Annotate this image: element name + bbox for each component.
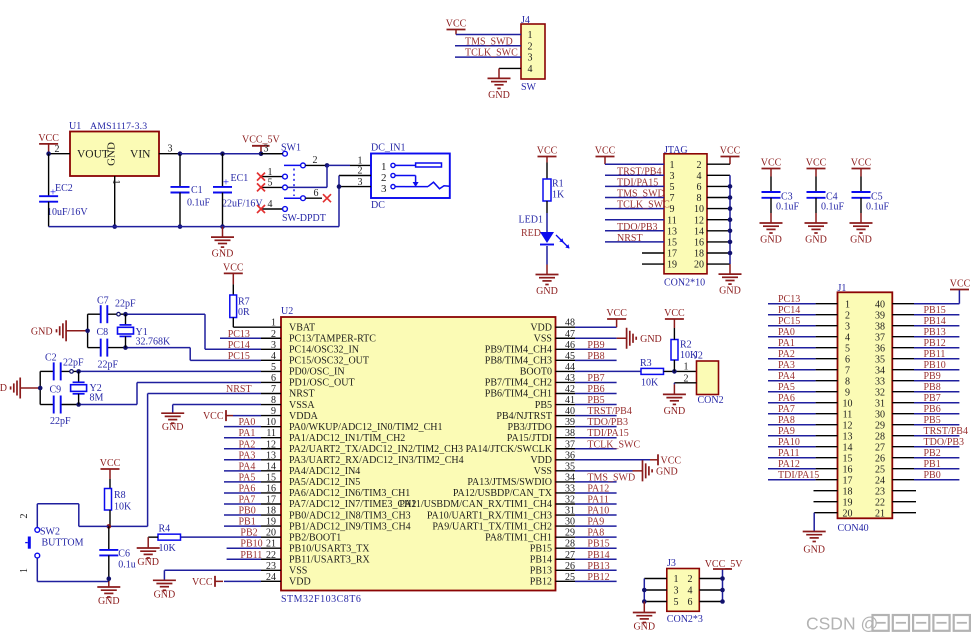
- svg-text:PB0/ADC12_IN8/TIM3_CH3: PB0/ADC12_IN8/TIM3_CH3: [289, 510, 411, 521]
- svg-text:1: 1: [670, 160, 675, 171]
- svg-text:DC: DC: [371, 200, 385, 211]
- svg-text:DC_IN1: DC_IN1: [371, 143, 405, 154]
- svg-text:PB14: PB14: [924, 316, 946, 327]
- svg-text:0.1uF: 0.1uF: [866, 202, 890, 213]
- svg-text:PA5: PA5: [239, 472, 256, 483]
- svg-text:+: +: [223, 177, 229, 189]
- svg-text:GND: GND: [162, 422, 184, 433]
- svg-text:PB6: PB6: [587, 384, 604, 395]
- svg-text:PA10: PA10: [587, 506, 609, 517]
- svg-text:VCC: VCC: [537, 146, 558, 157]
- svg-text:VOUT: VOUT: [77, 149, 109, 161]
- svg-text:C2: C2: [45, 353, 57, 364]
- svg-text:GND: GND: [656, 466, 678, 477]
- svg-text:TMS_SWD: TMS_SWD: [587, 472, 635, 483]
- svg-text:18: 18: [694, 249, 704, 260]
- svg-text:VDD: VDD: [530, 322, 552, 333]
- svg-text:GND: GND: [760, 235, 782, 246]
- svg-text:PB15: PB15: [924, 305, 946, 316]
- svg-text:3: 3: [674, 586, 679, 597]
- svg-text:PB10/USART3_TX: PB10/USART3_TX: [289, 543, 370, 554]
- svg-text:34: 34: [875, 366, 885, 377]
- svg-text:SW: SW: [521, 82, 537, 93]
- svg-text:32: 32: [875, 388, 885, 399]
- svg-text:12: 12: [843, 421, 853, 432]
- svg-text:16: 16: [843, 465, 853, 476]
- svg-text:VCC: VCC: [806, 158, 827, 169]
- svg-text:RED: RED: [521, 228, 541, 239]
- svg-text:21: 21: [875, 509, 885, 520]
- svg-text:GND: GND: [633, 622, 655, 633]
- svg-text:PA1/ADC12_IN1/TIM_CH2: PA1/ADC12_IN1/TIM_CH2: [289, 433, 405, 444]
- svg-text:VCC: VCC: [595, 146, 616, 157]
- svg-text:PA12: PA12: [778, 459, 800, 470]
- svg-text:PA8: PA8: [587, 528, 604, 539]
- svg-text:PA10/UART1_RX/TIM1_CH3: PA10/UART1_RX/TIM1_CH3: [427, 510, 552, 521]
- svg-text:BUTTOM: BUTTOM: [42, 538, 84, 549]
- svg-text:TDO/PB3: TDO/PB3: [924, 437, 965, 448]
- svg-text:0.1uF: 0.1uF: [821, 202, 845, 213]
- svg-text:2: 2: [697, 160, 702, 171]
- svg-text:15: 15: [843, 454, 853, 465]
- svg-text:C1: C1: [191, 185, 203, 196]
- svg-text:PB12: PB12: [924, 338, 946, 349]
- svg-text:PB13: PB13: [530, 566, 552, 577]
- svg-text:PB15: PB15: [587, 539, 609, 550]
- svg-text:GND: GND: [31, 326, 53, 337]
- svg-text:PA3: PA3: [239, 450, 256, 461]
- svg-text:R3: R3: [640, 358, 652, 369]
- svg-text:R7: R7: [238, 297, 250, 308]
- svg-text:14: 14: [843, 443, 853, 454]
- svg-text:33: 33: [875, 377, 885, 388]
- svg-text:PB12: PB12: [530, 577, 552, 588]
- svg-text:VSS: VSS: [534, 333, 552, 344]
- svg-text:PA13/JTMS/SWDIO: PA13/JTMS/SWDIO: [467, 477, 552, 488]
- svg-text:27: 27: [875, 443, 885, 454]
- svg-text:VBAT: VBAT: [289, 322, 315, 333]
- svg-text:22pF: 22pF: [63, 358, 84, 369]
- svg-text:PA0: PA0: [239, 417, 256, 428]
- svg-text:NRST: NRST: [289, 389, 315, 400]
- svg-text:VCC: VCC: [38, 133, 59, 144]
- svg-text:17: 17: [667, 249, 677, 260]
- svg-text:PB14: PB14: [530, 554, 552, 565]
- svg-text:PB7: PB7: [587, 373, 604, 384]
- svg-text:30: 30: [875, 410, 885, 421]
- svg-text:8: 8: [845, 377, 850, 388]
- svg-text:3: 3: [381, 183, 387, 195]
- svg-text:SW-DPDT: SW-DPDT: [282, 213, 326, 224]
- svg-text:3: 3: [168, 144, 173, 155]
- svg-text:PA3: PA3: [778, 360, 795, 371]
- svg-text:PC15/OSC32_OUT: PC15/OSC32_OUT: [289, 356, 369, 367]
- svg-text:36: 36: [875, 344, 885, 355]
- svg-text:10K: 10K: [114, 502, 132, 513]
- svg-text:PA6: PA6: [239, 483, 256, 494]
- svg-text:4: 4: [697, 171, 702, 182]
- svg-text:GND: GND: [664, 406, 686, 417]
- svg-text:NRST: NRST: [617, 233, 643, 244]
- svg-text:PA9/UART1_TX/TIM1_CH2: PA9/UART1_TX/TIM1_CH2: [432, 521, 552, 532]
- svg-text:TCLK_SWC: TCLK_SWC: [617, 200, 670, 211]
- svg-text:6: 6: [314, 188, 319, 199]
- svg-text:GND: GND: [98, 596, 120, 607]
- svg-text:PB9: PB9: [924, 371, 941, 382]
- svg-text:PB13: PB13: [587, 561, 609, 572]
- svg-text:VCC: VCC: [203, 411, 224, 422]
- svg-text:VCC: VCC: [223, 262, 244, 273]
- svg-text:2: 2: [19, 514, 30, 519]
- svg-text:PB6: PB6: [924, 404, 941, 415]
- svg-text:PC15: PC15: [778, 316, 800, 327]
- svg-text:38: 38: [875, 322, 885, 333]
- svg-text:VCC: VCC: [661, 455, 682, 466]
- svg-text:2: 2: [688, 574, 693, 585]
- svg-text:TDI/PA15: TDI/PA15: [778, 470, 819, 481]
- svg-text:R1: R1: [552, 179, 564, 190]
- svg-text:PB13: PB13: [924, 327, 946, 338]
- svg-text:3: 3: [528, 53, 533, 64]
- svg-text:PA10: PA10: [778, 437, 800, 448]
- svg-text:22pF: 22pF: [98, 360, 119, 371]
- svg-text:PA2/UART2_TX/ADC12_IN2/TIM2_CH: PA2/UART2_TX/ADC12_IN2/TIM2_CH3: [289, 444, 463, 455]
- svg-text:C9: C9: [50, 385, 62, 396]
- svg-text:PC13: PC13: [778, 294, 800, 305]
- svg-text:12: 12: [694, 215, 704, 226]
- svg-text:11: 11: [843, 410, 853, 421]
- svg-text:GND: GND: [0, 383, 7, 394]
- svg-text:TRST/PB4: TRST/PB4: [924, 426, 968, 437]
- svg-text:1K: 1K: [552, 190, 565, 201]
- svg-text:PA9: PA9: [778, 426, 795, 437]
- svg-text:CON2*3: CON2*3: [667, 614, 703, 625]
- svg-text:PA0/WKUP/ADC12_IN0/TIM2_CH1: PA0/WKUP/ADC12_IN0/TIM2_CH1: [289, 422, 443, 433]
- svg-text:VDDA: VDDA: [289, 411, 319, 422]
- svg-text:22pF: 22pF: [50, 416, 71, 427]
- svg-text:PA7: PA7: [239, 495, 256, 506]
- svg-text:PA8/TIM1_CH1: PA8/TIM1_CH1: [485, 532, 552, 543]
- svg-text:29: 29: [875, 421, 885, 432]
- svg-text:PB0: PB0: [924, 470, 941, 481]
- svg-text:PB5: PB5: [924, 415, 941, 426]
- svg-text:1: 1: [19, 568, 30, 573]
- svg-text:PC13/TAMPER-RTC: PC13/TAMPER-RTC: [289, 333, 376, 344]
- svg-text:CON2: CON2: [698, 395, 724, 406]
- svg-text:TCLK_SWC: TCLK_SWC: [465, 48, 518, 59]
- svg-text:R2: R2: [680, 340, 692, 351]
- svg-text:PB9/TIM4_CH4: PB9/TIM4_CH4: [485, 345, 552, 356]
- svg-text:PB2/BOOT1: PB2/BOOT1: [289, 532, 341, 543]
- svg-text:PB12: PB12: [587, 572, 609, 583]
- svg-text:CON40: CON40: [838, 523, 869, 534]
- svg-text:PA2: PA2: [239, 439, 256, 450]
- svg-text:PB10: PB10: [240, 539, 262, 550]
- svg-text:TDI/PA15: TDI/PA15: [587, 428, 628, 439]
- svg-text:PB5: PB5: [535, 400, 552, 411]
- svg-text:PA5: PA5: [778, 382, 795, 393]
- svg-text:PB1: PB1: [924, 459, 941, 470]
- svg-text:PA12/USBDP/CAN_TX: PA12/USBDP/CAN_TX: [453, 488, 553, 499]
- svg-text:SW2: SW2: [40, 527, 60, 538]
- svg-text:PB4/NJTRST: PB4/NJTRST: [496, 411, 552, 422]
- svg-text:PA11/USBDM/CAN_RX/TIM1_CH4: PA11/USBDM/CAN_RX/TIM1_CH4: [399, 499, 552, 510]
- svg-text:0.1u: 0.1u: [118, 560, 136, 571]
- svg-text:10: 10: [843, 399, 853, 410]
- svg-text:18: 18: [843, 487, 853, 498]
- svg-text:R8: R8: [114, 490, 126, 501]
- svg-text:PB1/ADC12_IN9/TIM3_CH4: PB1/ADC12_IN9/TIM3_CH4: [289, 521, 411, 532]
- svg-text:GND: GND: [850, 235, 872, 246]
- svg-text:0R: 0R: [238, 307, 250, 318]
- svg-text:R4: R4: [159, 524, 171, 535]
- svg-text:GND: GND: [536, 286, 558, 297]
- svg-text:VCC: VCC: [446, 19, 467, 30]
- svg-text:PA1: PA1: [778, 338, 795, 349]
- svg-text:PC13: PC13: [228, 329, 250, 340]
- svg-text:4: 4: [845, 333, 850, 344]
- svg-text:6: 6: [688, 597, 693, 608]
- svg-text:14: 14: [694, 226, 704, 237]
- svg-text:C6: C6: [118, 549, 130, 560]
- svg-text:2: 2: [845, 311, 850, 322]
- svg-text:PB8: PB8: [587, 351, 604, 362]
- svg-text:10: 10: [694, 204, 704, 215]
- svg-text:35: 35: [875, 355, 885, 366]
- svg-text:PA11: PA11: [587, 495, 609, 506]
- svg-text:PB1: PB1: [239, 517, 256, 528]
- svg-text:GND: GND: [719, 286, 741, 297]
- svg-text:4: 4: [688, 586, 693, 597]
- svg-text:22: 22: [875, 498, 885, 509]
- svg-text:PA12: PA12: [587, 483, 609, 494]
- svg-text:GND: GND: [805, 235, 827, 246]
- svg-text:J3: J3: [667, 558, 676, 569]
- svg-text:PB11: PB11: [240, 550, 262, 561]
- svg-text:31: 31: [875, 399, 885, 410]
- svg-text:EC2: EC2: [55, 183, 73, 194]
- svg-text:VCC: VCC: [606, 308, 627, 319]
- svg-text:VCC: VCC: [664, 308, 685, 319]
- svg-text:PB7: PB7: [924, 393, 941, 404]
- svg-text:GND: GND: [137, 557, 159, 568]
- svg-text:PA4: PA4: [239, 461, 256, 472]
- svg-text:1: 1: [674, 574, 679, 585]
- svg-text:26: 26: [875, 454, 885, 465]
- svg-text:7: 7: [845, 366, 850, 377]
- svg-text:TCLK_SWC: TCLK_SWC: [587, 439, 640, 450]
- svg-text:24: 24: [875, 476, 885, 487]
- svg-text:PB5: PB5: [587, 395, 604, 406]
- svg-text:10K: 10K: [641, 378, 659, 389]
- svg-text:8M: 8M: [90, 393, 104, 404]
- svg-text:PB2: PB2: [240, 527, 257, 538]
- svg-text:VSS: VSS: [534, 466, 552, 477]
- svg-text:PA1: PA1: [239, 428, 256, 439]
- svg-text:17: 17: [843, 476, 853, 487]
- svg-text:VCC: VCC: [851, 158, 872, 169]
- svg-text:PC15: PC15: [228, 351, 250, 362]
- svg-text:PC14: PC14: [778, 305, 800, 316]
- svg-text:TMS_SWD: TMS_SWD: [465, 36, 513, 47]
- svg-text:PB2: PB2: [924, 448, 941, 459]
- svg-text:EC1: EC1: [231, 173, 249, 184]
- svg-text:PB7/TIM4_CH2: PB7/TIM4_CH2: [485, 378, 552, 389]
- svg-text:13: 13: [843, 432, 853, 443]
- svg-text:VCC: VCC: [761, 158, 782, 169]
- svg-text:9: 9: [845, 388, 850, 399]
- svg-text:16: 16: [694, 238, 704, 249]
- svg-text:1: 1: [684, 362, 689, 373]
- svg-text:3: 3: [264, 144, 269, 155]
- svg-text:PB3/JTDO: PB3/JTDO: [508, 422, 552, 433]
- svg-text:32.768K: 32.768K: [136, 337, 172, 348]
- svg-text:AMS1117-3.3: AMS1117-3.3: [90, 121, 147, 132]
- svg-text:PC14: PC14: [228, 340, 250, 351]
- svg-text:VCC: VCC: [950, 279, 971, 290]
- svg-text:0.1uF: 0.1uF: [187, 198, 211, 209]
- svg-text:PB15: PB15: [530, 543, 552, 554]
- svg-text:22pF: 22pF: [115, 299, 136, 310]
- svg-text:VDD: VDD: [289, 577, 311, 588]
- svg-text:4: 4: [268, 199, 273, 210]
- svg-text:PB6/TIM4_CH1: PB6/TIM4_CH1: [485, 389, 552, 400]
- svg-text:TDO/PB3: TDO/PB3: [587, 417, 628, 428]
- svg-text:U1: U1: [69, 121, 81, 132]
- svg-text:NRST: NRST: [226, 384, 252, 395]
- svg-text:PA7: PA7: [778, 404, 795, 415]
- svg-text:VDD: VDD: [530, 455, 552, 466]
- svg-text:PA4: PA4: [778, 371, 795, 382]
- svg-text:3: 3: [670, 171, 675, 182]
- svg-text:PA14/JTCK/SWCLK: PA14/JTCK/SWCLK: [466, 444, 553, 455]
- svg-text:PB8/TIM4_CH3: PB8/TIM4_CH3: [485, 356, 552, 367]
- svg-text:TMS_SWD: TMS_SWD: [617, 189, 665, 200]
- svg-text:0.1uF: 0.1uF: [776, 202, 800, 213]
- svg-text:CON2*10: CON2*10: [664, 278, 705, 289]
- svg-text:GND: GND: [640, 334, 662, 345]
- svg-text:PB14: PB14: [587, 550, 609, 561]
- svg-text:40: 40: [875, 300, 885, 311]
- svg-text:TRST/PB4: TRST/PB4: [587, 406, 631, 417]
- svg-text:LED1: LED1: [519, 215, 543, 226]
- svg-text:5: 5: [268, 178, 273, 189]
- svg-text:22uF/16V: 22uF/16V: [222, 199, 263, 210]
- svg-text:28: 28: [875, 432, 885, 443]
- svg-text:1: 1: [268, 167, 273, 178]
- svg-text:PA8: PA8: [778, 415, 795, 426]
- svg-text:PA15/JTDI: PA15/JTDI: [507, 433, 552, 444]
- svg-text:PB8: PB8: [924, 382, 941, 393]
- svg-text:3: 3: [845, 322, 850, 333]
- svg-text:STM32F103C8T6: STM32F103C8T6: [281, 594, 361, 605]
- svg-text:VCC_5V: VCC_5V: [242, 135, 281, 146]
- svg-text:PB11: PB11: [924, 349, 946, 360]
- svg-text:J2: J2: [694, 351, 703, 362]
- svg-text:CSDN @: CSDN @: [806, 614, 878, 634]
- svg-text:13: 13: [667, 226, 677, 237]
- svg-text:2: 2: [528, 41, 533, 52]
- svg-text:7: 7: [670, 193, 675, 204]
- svg-text:5: 5: [845, 344, 850, 355]
- svg-text:VCC: VCC: [192, 577, 213, 588]
- svg-text:PD1/OSC_OUT: PD1/OSC_OUT: [289, 378, 355, 389]
- svg-text:GND: GND: [154, 589, 176, 600]
- svg-text:20: 20: [694, 260, 704, 271]
- svg-text:10K: 10K: [159, 543, 177, 554]
- svg-text:GND: GND: [803, 545, 825, 556]
- svg-text:15: 15: [667, 238, 677, 249]
- svg-text:19: 19: [667, 260, 677, 271]
- svg-text:BOOT0: BOOT0: [520, 367, 552, 378]
- svg-text:19: 19: [843, 498, 853, 509]
- svg-text:8: 8: [697, 193, 702, 204]
- svg-text:PA7/ADC12_IN7/TIME3_CH2: PA7/ADC12_IN7/TIME3_CH2: [289, 499, 416, 510]
- svg-text:GND: GND: [106, 142, 118, 166]
- svg-text:PD0/OSC_IN: PD0/OSC_IN: [289, 367, 345, 378]
- svg-text:VSSA: VSSA: [289, 400, 315, 411]
- svg-text:PA4/ADC12_IN4: PA4/ADC12_IN4: [289, 466, 360, 477]
- svg-text:11: 11: [667, 215, 677, 226]
- svg-text:9: 9: [670, 204, 675, 215]
- svg-text:20: 20: [843, 509, 853, 520]
- svg-text:1: 1: [528, 30, 533, 41]
- svg-text:PB11/USART3_RX: PB11/USART3_RX: [289, 554, 370, 565]
- svg-text:C8: C8: [97, 327, 109, 338]
- svg-text:39: 39: [875, 311, 885, 322]
- svg-text:PB0: PB0: [239, 506, 256, 517]
- svg-text:PC14/OSC32_IN: PC14/OSC32_IN: [289, 345, 359, 356]
- svg-text:GND: GND: [212, 249, 234, 260]
- svg-text:PA5/ADC12_IN5: PA5/ADC12_IN5: [289, 477, 360, 488]
- svg-text:2: 2: [313, 155, 318, 166]
- svg-text:U2: U2: [281, 306, 293, 317]
- svg-text:VCC: VCC: [100, 458, 121, 469]
- svg-text:1: 1: [110, 180, 121, 185]
- svg-text:PA11: PA11: [778, 448, 800, 459]
- svg-text:6: 6: [845, 355, 850, 366]
- svg-text:5: 5: [674, 597, 679, 608]
- svg-text:5: 5: [670, 182, 675, 193]
- svg-text:J4: J4: [521, 15, 530, 26]
- svg-text:PA6/ADC12_IN6/TIM3_CH1: PA6/ADC12_IN6/TIM3_CH1: [289, 488, 410, 499]
- svg-text:TDI/PA15: TDI/PA15: [617, 177, 658, 188]
- svg-text:PA3/UART2_RX/ADC12_IN3/TIM2_CH: PA3/UART2_RX/ADC12_IN3/TIM2_CH4: [289, 455, 464, 466]
- svg-text:10uF/16V: 10uF/16V: [47, 207, 88, 218]
- svg-text:TDO/PB3: TDO/PB3: [617, 222, 658, 233]
- svg-text:37: 37: [875, 333, 885, 344]
- svg-text:VCC: VCC: [720, 146, 741, 157]
- svg-text:PA6: PA6: [778, 393, 795, 404]
- svg-text:C7: C7: [97, 296, 109, 307]
- svg-text:PA0: PA0: [778, 327, 795, 338]
- svg-text:PB9: PB9: [587, 340, 604, 351]
- svg-text:PA2: PA2: [778, 349, 795, 360]
- svg-text:TRST/PB4: TRST/PB4: [617, 166, 661, 177]
- svg-text:1: 1: [845, 300, 850, 311]
- svg-text:VSS: VSS: [289, 566, 307, 577]
- svg-text:VIN: VIN: [130, 149, 151, 161]
- svg-text:4: 4: [528, 64, 533, 75]
- svg-text:23: 23: [875, 487, 885, 498]
- svg-text:25: 25: [875, 465, 885, 476]
- svg-text:PA9: PA9: [587, 517, 604, 528]
- svg-text:6: 6: [697, 182, 702, 193]
- svg-text:GND: GND: [488, 90, 510, 101]
- svg-text:PB10: PB10: [924, 360, 946, 371]
